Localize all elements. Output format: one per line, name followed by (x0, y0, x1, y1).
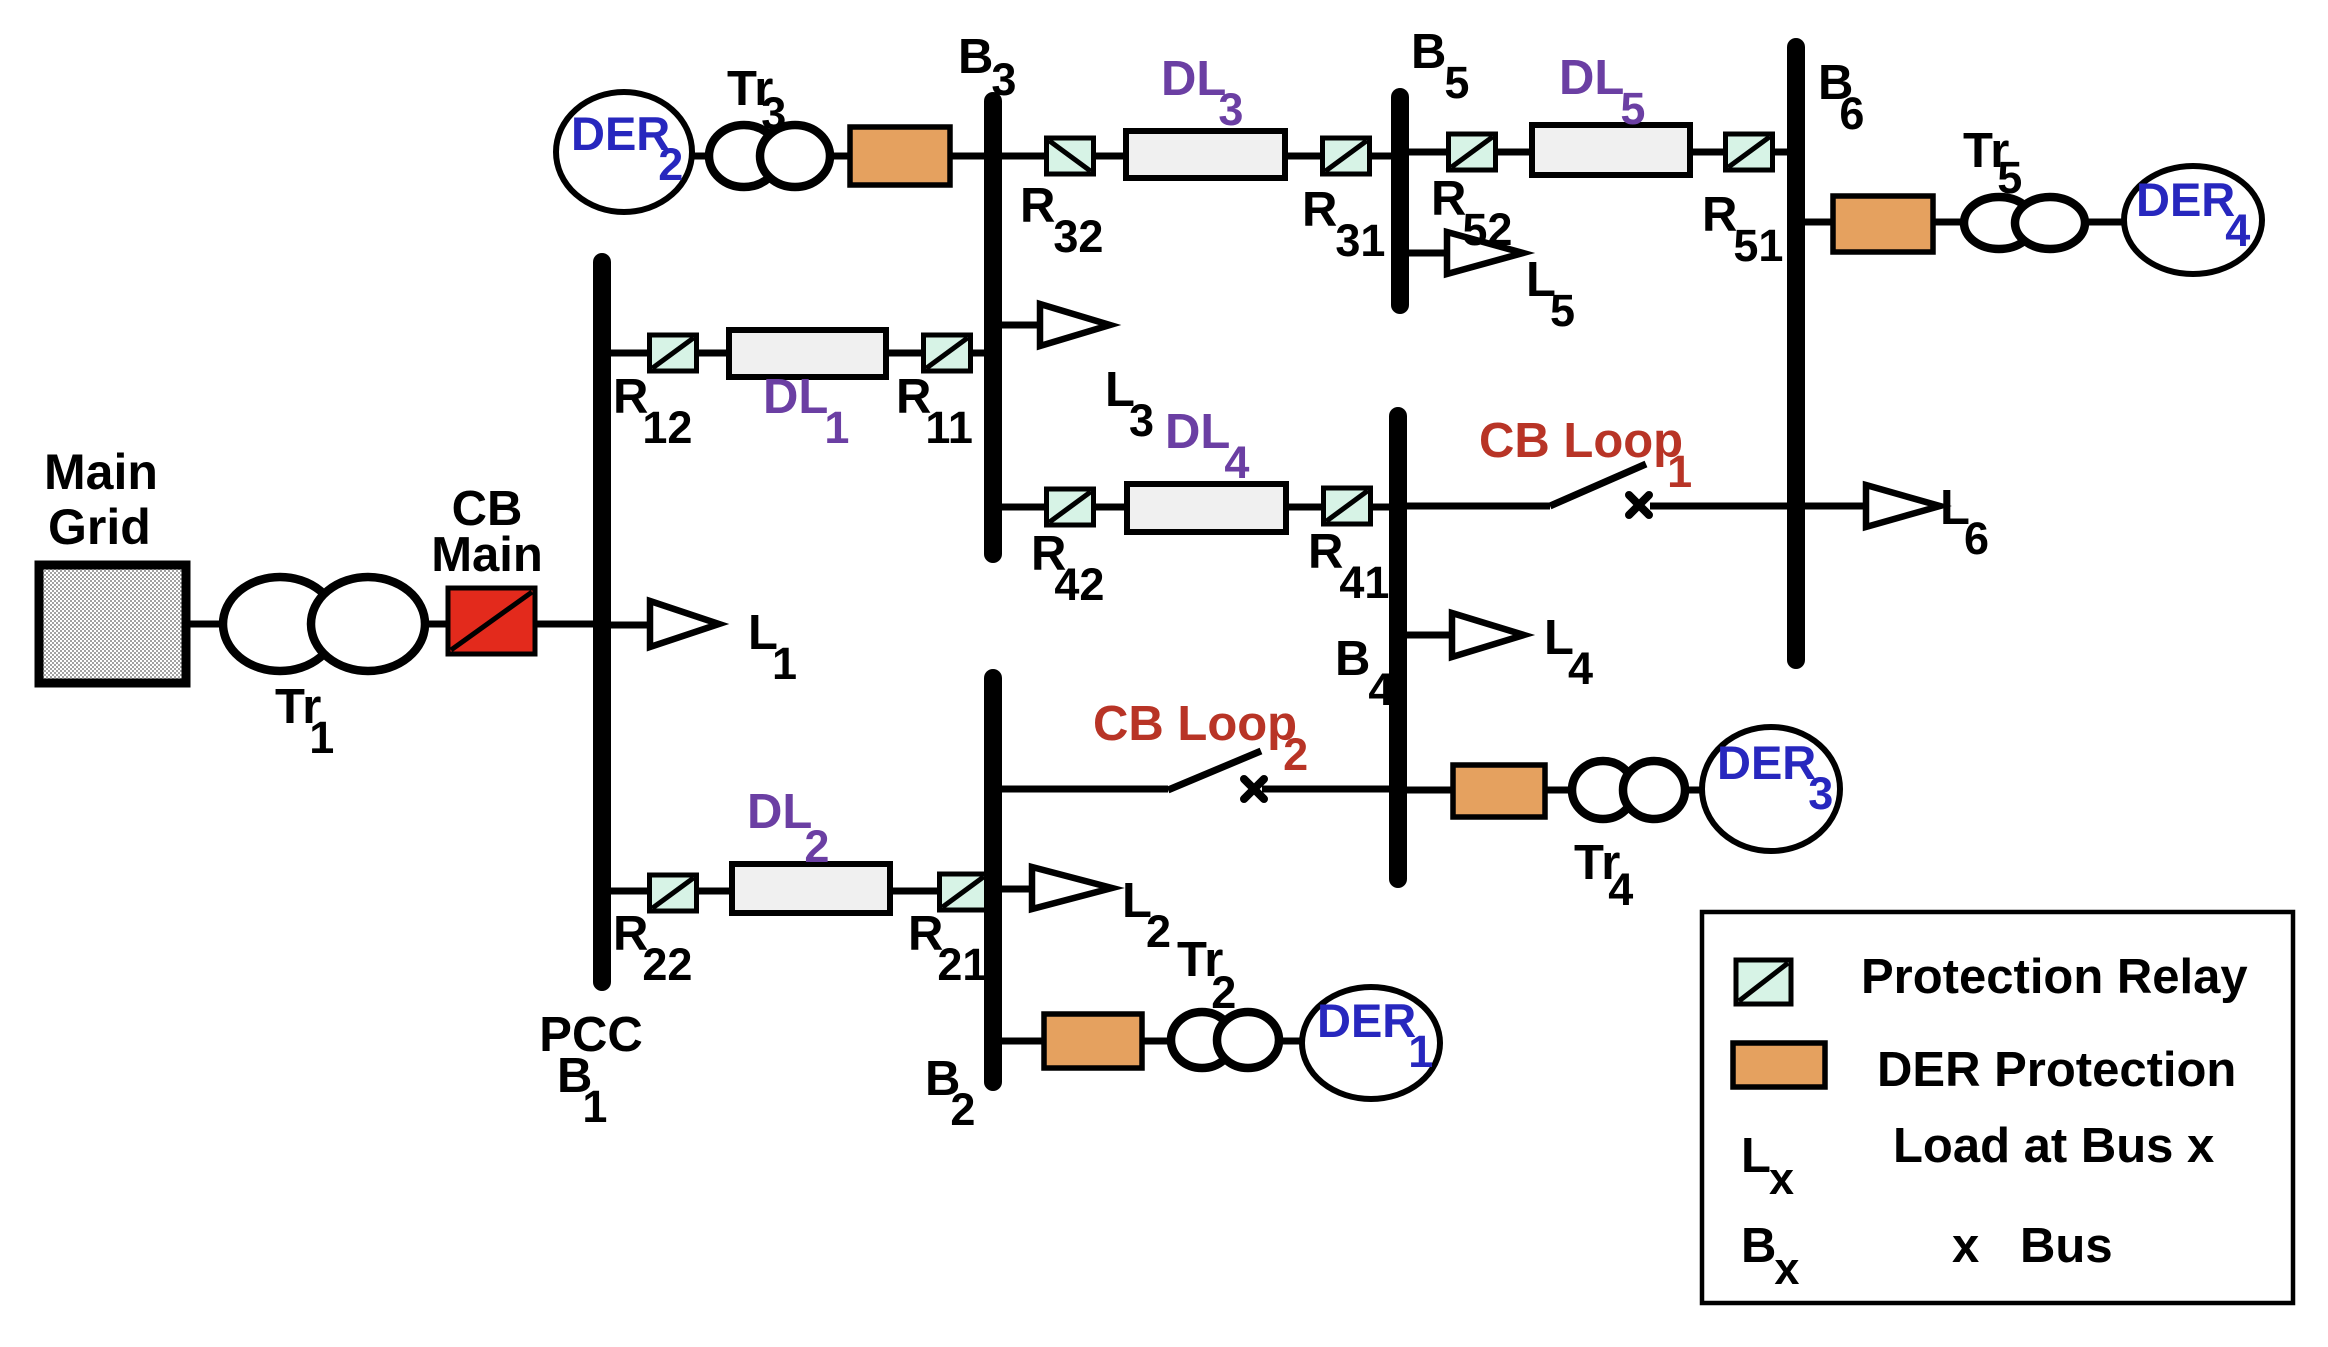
svg-text:Bus: Bus (2020, 1219, 2113, 1273)
svg-text:Load at Bus x: Load at Bus x (1893, 1119, 2214, 1173)
svg-text:Protection Relay: Protection Relay (1861, 950, 2248, 1004)
svg-text:x: x (1952, 1219, 1979, 1273)
svg-text:Main: Main (44, 444, 158, 500)
svg-text:Main: Main (431, 528, 543, 582)
svg-text:DER Protection: DER Protection (1877, 1043, 2236, 1097)
svg-text:Grid: Grid (48, 499, 151, 555)
